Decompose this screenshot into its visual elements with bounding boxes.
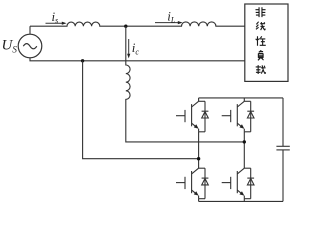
transistor Q2 (top-right IGBT) (222, 101, 245, 132)
wire: bridge DC top rail (199, 97, 283, 99)
diode D3 (199, 168, 209, 199)
wire: Q1 collector lead (198, 98, 200, 101)
wire: source bottom lead and bottom rail to load (30, 58, 245, 61)
wire: second feed from bottom rail to left leg midpoint (83, 61, 199, 159)
wire: source top lead (29, 26, 31, 34)
current arrow iL (155, 21, 183, 24)
transistor Q3 (bottom-left IGBT) (176, 168, 199, 199)
wire: Q4 emitter lead (243, 199, 245, 202)
diode D2 (244, 101, 254, 132)
svg-text:is: is (52, 9, 59, 25)
node: junction on top rail (124, 25, 127, 28)
diode D4 (244, 168, 254, 199)
nonlinear load box (245, 4, 288, 81)
current arrow is (46, 22, 67, 25)
diode D1 (199, 101, 209, 132)
node: right leg midpoint (243, 140, 246, 143)
label 线 (load text char 2) (256, 22, 265, 31)
wire: Q2 collector lead (243, 98, 245, 101)
svg-text:ic: ic (132, 40, 140, 56)
transistor Q1 (top-left IGBT) (176, 101, 199, 132)
label 性 (load text char 3) (256, 36, 266, 45)
node: junction on bottom rail (81, 59, 84, 62)
wire: bridge DC bottom rail (199, 200, 283, 202)
capacitor C (DC link) (276, 98, 289, 201)
wire: right leg midsection (243, 132, 245, 168)
wire: Q3 emitter lead (198, 199, 200, 202)
label 载 (load text char 5) (256, 65, 266, 74)
label 非 (load text char 1) (255, 7, 265, 17)
transistor Q4 (bottom-right IGBT) (222, 168, 245, 199)
sine symbol inside source (23, 44, 37, 49)
label 负 (load text char 4) (258, 50, 264, 60)
node: left leg midpoint (197, 157, 200, 160)
wire: top rail with inductor Ls and inductor LL (30, 22, 245, 26)
current arrow ic (127, 39, 130, 58)
wire: APF branch down from top rail with coupling inductor (126, 26, 245, 142)
svg-text:US: US (2, 38, 18, 55)
wire: left leg midsection (198, 132, 200, 168)
AC source US (18, 34, 42, 58)
svg-text:iL: iL (167, 8, 176, 24)
